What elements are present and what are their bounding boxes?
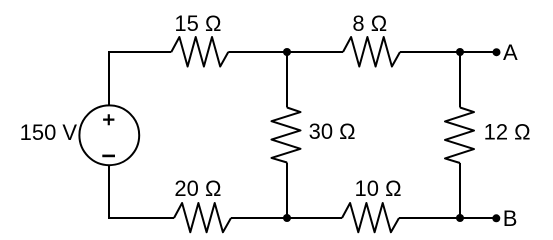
svg-text:B: B: [503, 206, 518, 231]
svg-text:10 Ω: 10 Ω: [355, 176, 402, 201]
plus sign: [103, 114, 114, 125]
svg-text:12 Ω: 12 Ω: [484, 120, 531, 145]
wire bottom-left: source to 20-ohm: [109, 165, 174, 218]
junction top-middle node: [283, 48, 291, 56]
wire top-right: 8-ohm to terminal A: [400, 51, 497, 53]
voltage source V1 150 V: [79, 105, 139, 165]
resistor R6 12 ohm: [445, 108, 474, 164]
terminal B dot: [492, 214, 500, 222]
wire bottom-middle: 20-ohm to 10-ohm through node: [231, 217, 342, 219]
resistor R2 8 ohm: [343, 37, 400, 67]
svg-text:8 Ω: 8 Ω: [352, 11, 387, 36]
resistor R3 20 ohm: [174, 203, 231, 232]
resistor R4 10 ohm: [342, 203, 399, 232]
wire top-middle: 15-ohm to 8-ohm through node: [228, 51, 343, 53]
wire top-left: source to 15-ohm: [109, 52, 171, 106]
wire right vertical lower: [459, 163, 461, 218]
wire middle vertical upper: [286, 52, 288, 108]
junction bottom-middle node: [283, 214, 291, 222]
junction top-right node: [456, 48, 464, 56]
svg-text:20 Ω: 20 Ω: [174, 176, 221, 201]
resistor R1 15 ohm: [171, 37, 228, 67]
wire right vertical upper: [459, 52, 461, 108]
svg-text:15 Ω: 15 Ω: [174, 11, 221, 36]
svg-text:150 V: 150 V: [20, 120, 78, 145]
resistor R5 30 ohm: [272, 108, 301, 163]
terminal A dot: [493, 48, 501, 56]
wire bottom-right: 10-ohm to terminal B: [399, 217, 497, 219]
svg-text:30 Ω: 30 Ω: [309, 119, 356, 144]
svg-text:A: A: [503, 40, 518, 65]
junction bottom-right node: [456, 214, 464, 222]
minus sign: [102, 155, 115, 158]
wire middle vertical lower: [286, 163, 288, 219]
